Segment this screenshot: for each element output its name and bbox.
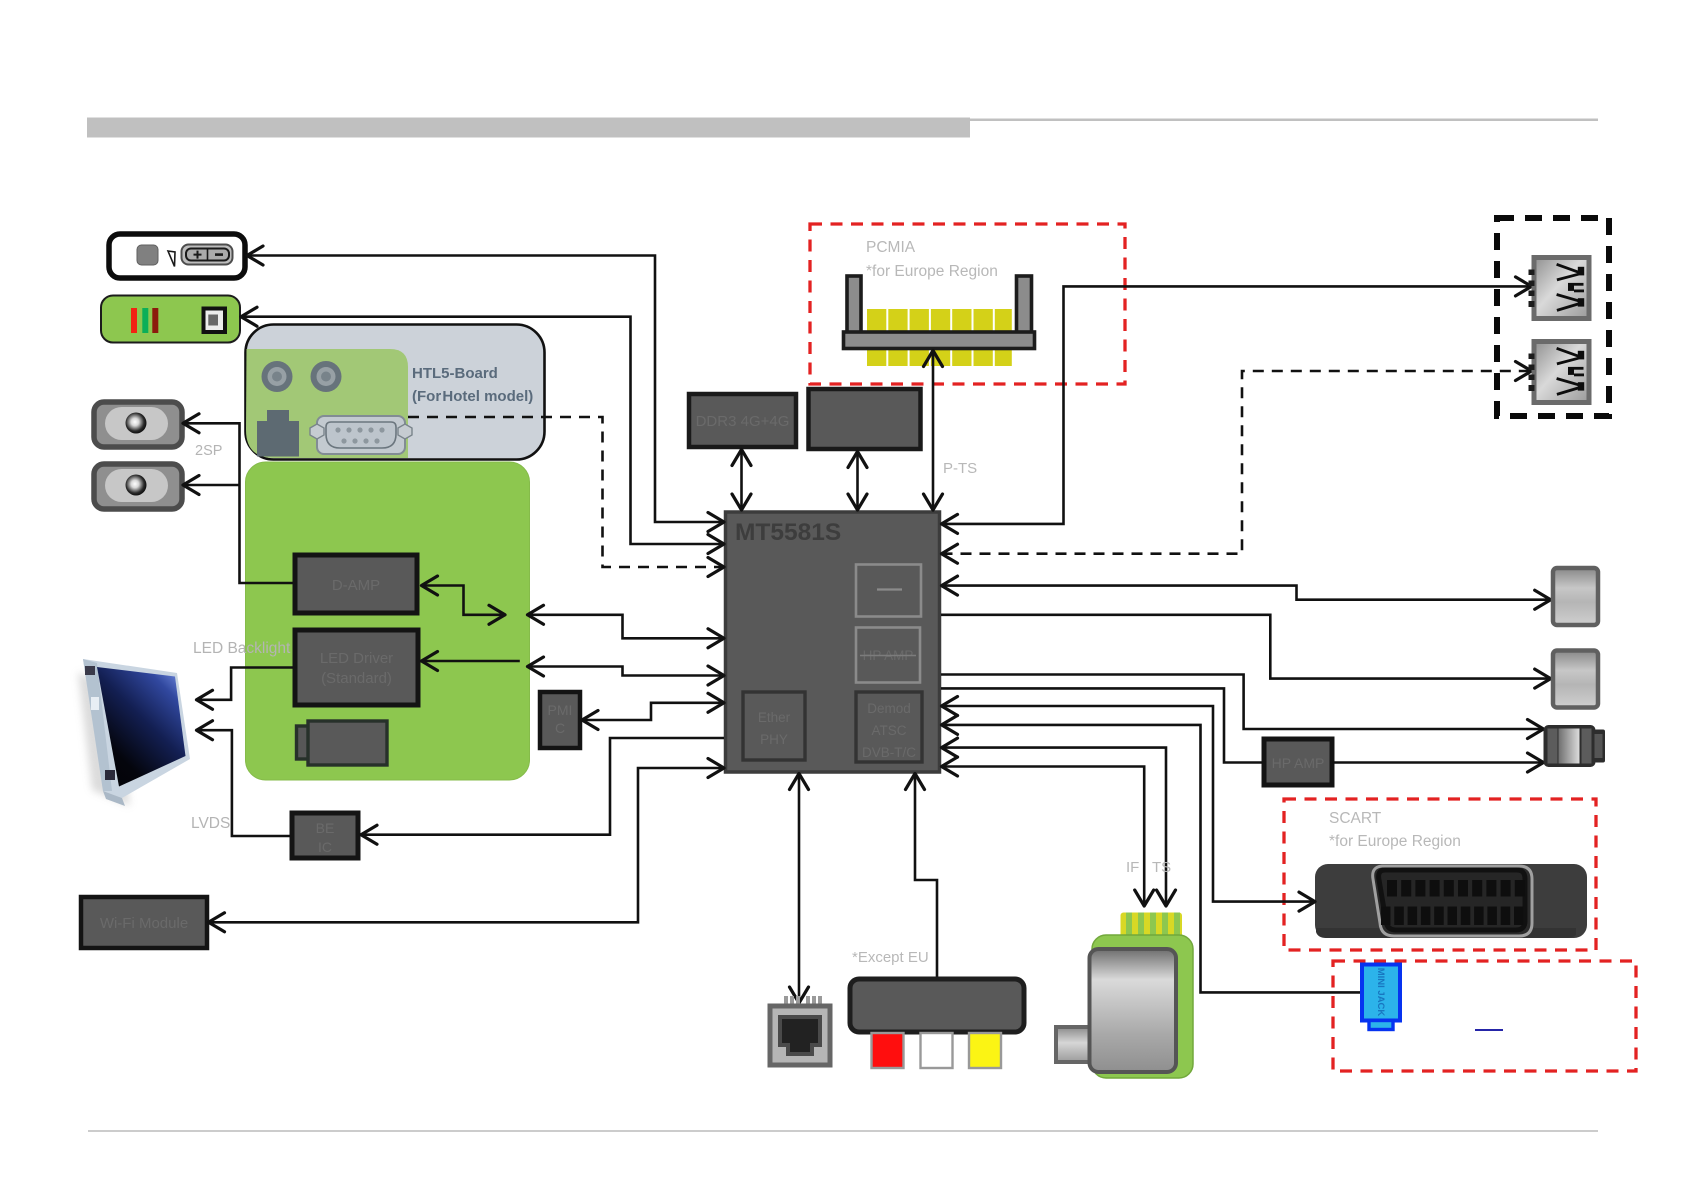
svg-text:C: C — [555, 720, 565, 736]
remote control block — [109, 234, 245, 278]
wire chip to BE IC — [361, 738, 724, 835]
wire chip to D-AMP audio — [528, 615, 725, 639]
wire D-AMP input stub — [422, 586, 506, 615]
chip inner box 1 — [856, 565, 921, 617]
rgb led block — [101, 296, 240, 343]
wire chip to RJ45 — [798, 774, 801, 1004]
wire HTL5 dashed to chip — [408, 417, 724, 567]
label Except EU — [852, 949, 929, 966]
HDMI connector B — [1553, 651, 1598, 708]
wire P-TS PCMIA to chip — [932, 351, 935, 511]
wire chip TS to tuner — [942, 748, 1167, 906]
svg-text:*for Europe Region: *for Europe Region — [866, 263, 998, 280]
svg-text:HP AMP: HP AMP — [1272, 755, 1325, 771]
svg-text:(Standard): (Standard) — [321, 670, 392, 687]
svg-text:TS: TS — [1152, 859, 1171, 876]
backlight connector block — [297, 721, 388, 765]
DDR3 block — [689, 394, 796, 447]
label P-TS — [943, 460, 977, 477]
svg-text:SCART: SCART — [1329, 810, 1382, 827]
LED Driver block — [295, 630, 418, 705]
AV jack connector — [1544, 725, 1606, 767]
wire chip to mini-jack — [942, 725, 1363, 993]
wire chip to RCA — [915, 774, 937, 979]
label LVDS — [191, 815, 230, 832]
HTL5 board — [246, 325, 545, 460]
svg-text:LVDS: LVDS — [191, 815, 230, 832]
wire chip to connector A — [942, 586, 1551, 600]
chip inner box Ether PHY — [743, 692, 805, 760]
wire DDR3 to chip — [740, 450, 743, 511]
HTL5 RF connector 2 — [311, 361, 342, 392]
wire chip to PMIC — [582, 703, 724, 720]
wire LED-driver input stub — [422, 660, 520, 663]
wire chip to USB2 dashed — [942, 371, 1532, 554]
svg-text:2SP: 2SP — [195, 443, 222, 459]
mini jack connector — [1362, 965, 1400, 1030]
label 2SP — [195, 443, 222, 459]
wire chip to SCART — [942, 706, 1316, 902]
WiFi module block — [81, 897, 207, 948]
wire rgb-led to chip — [241, 317, 724, 544]
D-AMP block — [295, 555, 417, 613]
PMIC block — [540, 692, 580, 748]
label TS — [1152, 859, 1171, 876]
HDMI connector A — [1553, 568, 1598, 625]
wire chip to USB1 — [942, 286, 1532, 524]
svg-text:D-AMP: D-AMP — [332, 577, 380, 594]
wire remote-control to chip — [247, 256, 724, 523]
speaker 1 — [94, 402, 182, 447]
wire BE IC LVDS to LCD — [197, 730, 291, 836]
svg-text:Ether: Ether — [758, 710, 791, 725]
svg-text:BE: BE — [316, 820, 335, 836]
PCMIA connector — [844, 276, 1035, 366]
svg-text:LED Driver: LED Driver — [320, 650, 393, 667]
svg-text:Wi-Fi Module: Wi-Fi Module — [100, 915, 188, 932]
SCART dashed region — [1284, 799, 1596, 950]
svg-text:P-TS: P-TS — [943, 460, 977, 477]
HTL5 DB9 connector — [310, 416, 412, 454]
svg-text:PHY: PHY — [760, 732, 788, 747]
LCD panel — [78, 659, 190, 806]
svg-text:(For Hotel model): (For Hotel model) — [412, 388, 533, 405]
PCMIA dashed region — [810, 224, 1125, 384]
BE IC block — [292, 813, 358, 858]
header gray bar — [87, 118, 1598, 138]
bottom-right dashed region — [1333, 961, 1636, 1071]
wire chip to AV jack — [941, 675, 1544, 730]
wire speaker2 branch — [183, 484, 240, 487]
audio/backlight green board — [246, 462, 530, 780]
USB connector 2 — [1529, 342, 1590, 403]
MT5581S chip — [726, 512, 940, 772]
svg-text:MT5581S: MT5581S — [735, 519, 841, 546]
wire flash to chip — [856, 452, 859, 511]
svg-text:*Except EU: *Except EU — [852, 949, 929, 966]
wire chip to connector B — [941, 615, 1551, 679]
wire chip to LED-driver — [528, 667, 725, 676]
tuner — [1056, 913, 1193, 1079]
RCA composite block — [850, 979, 1024, 1068]
speaker 2 — [94, 464, 182, 509]
svg-text:MINI JACK: MINI JACK — [1375, 968, 1386, 1017]
wire chip IF to tuner — [942, 767, 1145, 907]
flash block — [809, 389, 921, 449]
svg-text:DDR3 4G+4G: DDR3 4G+4G — [696, 413, 790, 430]
svg-text:LED Backlight: LED Backlight — [193, 640, 291, 657]
label LED Backlight — [193, 640, 291, 657]
HP AMP block — [1264, 739, 1332, 785]
svg-text:PCMIA: PCMIA — [866, 239, 916, 256]
svg-text:IC: IC — [318, 839, 332, 855]
HTL5 RJ45 jack — [257, 410, 299, 457]
wire D-AMP to speakers trunk — [183, 423, 293, 583]
wire LED-driver to LCD — [197, 668, 294, 700]
chip inner box HP AMP — [856, 628, 920, 683]
svg-text:ATSC: ATSC — [871, 723, 906, 738]
svg-text:PMI: PMI — [548, 702, 573, 718]
SCART connector — [1315, 864, 1587, 938]
svg-text:DVB-T/C: DVB-T/C — [862, 745, 916, 760]
svg-text:*for Europe Region: *for Europe Region — [1329, 833, 1461, 850]
svg-text:Demod: Demod — [867, 701, 911, 716]
wire chip to WiFi module — [209, 768, 725, 922]
RJ45 LAN jack — [770, 996, 830, 1065]
label IF — [1126, 859, 1139, 876]
HTL5 RF connector 1 — [262, 361, 293, 392]
USB dashed region — [1497, 218, 1609, 416]
svg-text:HTL5-Board: HTL5-Board — [412, 365, 498, 382]
footer line — [88, 1130, 1598, 1132]
wire chip to HP AMP — [941, 688, 1263, 762]
svg-text:IF: IF — [1126, 859, 1139, 876]
chip inner box Demod — [856, 692, 922, 762]
wire HP AMP to AV jack — [1332, 761, 1544, 764]
USB connector 1 — [1529, 258, 1590, 319]
